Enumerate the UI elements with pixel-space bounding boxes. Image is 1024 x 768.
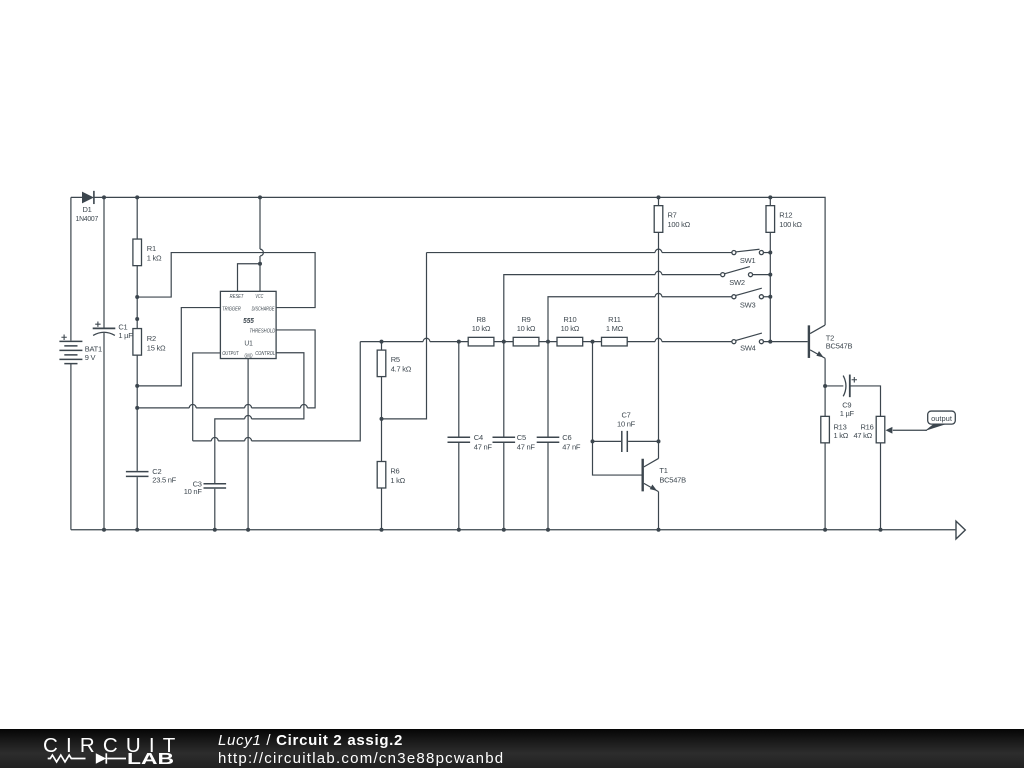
- resistor R10: [557, 315, 583, 346]
- wire C9 left: [825, 385, 843, 387]
- node SW1 right: [768, 251, 772, 255]
- svg-text:C4: C4: [474, 433, 483, 442]
- footer url: [218, 750, 504, 768]
- wire R2 bottom to TRIGGER: [137, 308, 220, 386]
- capacitor C4: [448, 433, 493, 452]
- node T2 emitter C9: [823, 384, 827, 388]
- svg-text:1 kΩ: 1 kΩ: [147, 253, 162, 262]
- transistor T1: [643, 458, 686, 491]
- svg-text:10 kΩ: 10 kΩ: [561, 324, 580, 333]
- svg-text:C5: C5: [517, 433, 526, 442]
- hop C2 wire over output drop: [189, 404, 196, 407]
- node RESET/VCC: [258, 262, 262, 266]
- resistor R11: [602, 315, 628, 346]
- svg-text:GND: GND: [245, 354, 253, 360]
- wire bottom rail: [71, 529, 956, 531]
- svg-text:output: output: [931, 414, 953, 423]
- svg-text:9 V: 9 V: [85, 353, 96, 362]
- diode D1: [76, 191, 99, 223]
- wire T2 emitter column: [824, 358, 826, 386]
- wire R12 line: [769, 197, 771, 341]
- svg-text:SW2: SW2: [729, 278, 745, 287]
- hop output wire over C3 line: [211, 437, 218, 440]
- node R2 bottom trigger: [135, 384, 139, 388]
- svg-text:1 µF: 1 µF: [118, 331, 133, 340]
- svg-text:BC547B: BC547B: [826, 342, 853, 351]
- svg-text:4.7 kΩ: 4.7 kΩ: [391, 364, 412, 373]
- resistor R13: [821, 416, 849, 443]
- node rail C5: [502, 528, 506, 532]
- node C5 top: [502, 340, 506, 344]
- svg-text:1 kΩ: 1 kΩ: [390, 476, 405, 485]
- wire CONTROL to C3: [215, 353, 304, 530]
- svg-text:555: 555: [243, 316, 255, 325]
- transistor T2: [809, 325, 853, 358]
- resistor R6: [377, 462, 405, 489]
- wire OUTPUT to row riser: [193, 342, 361, 441]
- wire SW1 branch riser to R5 bottom: [382, 253, 732, 419]
- node SW4 right: [768, 340, 772, 344]
- wire R1-R2-C2 column: [136, 197, 138, 529]
- node C4 top: [457, 340, 461, 344]
- node rail C1: [102, 528, 106, 532]
- wire C4 column: [458, 342, 460, 530]
- svg-text:C6: C6: [562, 433, 571, 442]
- svg-text:RESET: RESET: [230, 294, 244, 300]
- svg-text:C9: C9: [842, 400, 851, 409]
- wire C2 top to THRESHOLD: [137, 330, 315, 408]
- svg-text:10 kΩ: 10 kΩ: [472, 324, 491, 333]
- svg-text:100 kΩ: 100 kΩ: [779, 220, 802, 229]
- svg-text:R7: R7: [668, 211, 677, 220]
- svg-text:R2: R2: [147, 334, 156, 343]
- footer title: [218, 732, 403, 750]
- svg-text:23.5 nF: 23.5 nF: [152, 476, 176, 485]
- hop row over sw1 riser: [423, 338, 430, 341]
- hop C2 wire over gnd line: [245, 404, 252, 407]
- resistor R2: [133, 329, 166, 356]
- wire SW3 branch from C6 node: [548, 297, 732, 342]
- svg-text:CONTROL: CONTROL: [255, 351, 275, 357]
- wire C1 column: [103, 197, 105, 529]
- node R5 top: [380, 340, 384, 344]
- svg-text:1 kΩ: 1 kΩ: [834, 431, 849, 440]
- wire SW2 right to R12 line: [753, 274, 771, 276]
- svg-text:10 nF: 10 nF: [184, 487, 203, 496]
- node R2 top: [135, 317, 139, 321]
- wire C9 right to R16: [850, 386, 881, 416]
- hop sw3 wire over R7 line: [655, 293, 662, 296]
- svg-text:R16: R16: [861, 422, 874, 431]
- wire battery left column: [70, 197, 72, 529]
- hop sw1 wire over R7 line: [655, 249, 662, 252]
- node C1 top: [102, 195, 106, 199]
- svg-text:1 MΩ: 1 MΩ: [606, 324, 624, 333]
- node SW2 right: [768, 273, 772, 277]
- svg-text:47 nF: 47 nF: [562, 443, 581, 452]
- switch SW4: [732, 333, 764, 353]
- svg-text:47 nF: 47 nF: [517, 443, 536, 452]
- capacitor C2: [126, 467, 177, 485]
- wire RESET to VCC riser: [238, 264, 261, 292]
- switch SW3: [732, 288, 764, 309]
- node R1 bottom: [135, 295, 139, 299]
- wire C6 column: [547, 342, 549, 530]
- svg-text:VCC: VCC: [255, 294, 264, 300]
- wire resistor chain row: [360, 341, 731, 343]
- node C6 top: [546, 340, 550, 344]
- capacitor C9: [840, 375, 857, 419]
- svg-text:TRIGGER: TRIGGER: [222, 306, 241, 312]
- svg-text:SW3: SW3: [740, 300, 756, 309]
- wire R16 bottom: [880, 443, 882, 530]
- svg-text:47 nF: 47 nF: [474, 443, 493, 452]
- wire C5 column: [503, 342, 505, 530]
- hop sw2 wire over R7 line: [655, 271, 662, 274]
- wire R7 line: [658, 197, 660, 458]
- svg-text:R11: R11: [608, 315, 621, 324]
- node R5 bottom: [380, 417, 384, 421]
- svg-text:D1: D1: [82, 205, 91, 214]
- wire VCC riser: [259, 197, 261, 291]
- svg-text:10 kΩ: 10 kΩ: [517, 324, 536, 333]
- svg-text:R8: R8: [476, 315, 485, 324]
- switch SW1: [732, 249, 764, 265]
- node R12 top: [768, 195, 772, 199]
- node output flag: [886, 411, 956, 434]
- node R1 top: [135, 195, 139, 199]
- resistor R16: [854, 416, 885, 443]
- svg-text:47 kΩ: 47 kΩ: [854, 431, 873, 440]
- svg-text:15 kΩ: 15 kΩ: [147, 343, 166, 352]
- wire SW4 right to T2 base: [764, 341, 808, 343]
- hop row over R7 line: [655, 338, 662, 341]
- hop control wire over gnd line: [245, 415, 252, 418]
- svg-text:R12: R12: [779, 211, 792, 220]
- wire SW1 right to R12 line: [764, 252, 771, 254]
- svg-text:1 µF: 1 µF: [840, 409, 855, 418]
- node rail R6: [380, 528, 384, 532]
- svg-text:1N4007: 1N4007: [76, 214, 99, 223]
- capacitor C6: [537, 433, 581, 452]
- node VCC rail: [258, 195, 262, 199]
- wire T1 emitter to rail: [658, 492, 660, 530]
- wire top rail: [71, 197, 825, 325]
- capacitor C1: [93, 321, 134, 340]
- node C7 right: [657, 439, 661, 443]
- resistor R12: [766, 206, 802, 233]
- svg-text:C7: C7: [621, 411, 630, 420]
- node R7 top: [657, 195, 661, 199]
- svg-text:100 kΩ: 100 kΩ: [668, 220, 691, 229]
- node rail C4: [457, 528, 461, 532]
- wire C7 drop and T1 base: [593, 342, 642, 475]
- svg-text:R10: R10: [563, 315, 576, 324]
- svg-text:SW1: SW1: [740, 256, 756, 265]
- svg-text:OUTPUT: OUTPUT: [222, 351, 239, 357]
- svg-text:DISCHARGE: DISCHARGE: [252, 306, 275, 312]
- op-amp U1 555 timer box: [220, 291, 276, 359]
- resistor R8: [468, 315, 494, 346]
- switch SW2: [721, 267, 753, 288]
- svg-text:R13: R13: [834, 422, 847, 431]
- wire C7 right to R7 line: [628, 440, 658, 442]
- svg-text:LAB: LAB: [127, 751, 174, 768]
- node rail R16: [879, 528, 883, 532]
- svg-text:R1: R1: [147, 244, 156, 253]
- node C7 top: [591, 340, 595, 344]
- node rail C2: [135, 528, 139, 532]
- svg-text:BC547B: BC547B: [659, 475, 686, 484]
- battery BAT1: [59, 335, 102, 364]
- wire R13 stub: [824, 386, 826, 530]
- node rail C3: [213, 528, 217, 532]
- svg-text:U1: U1: [244, 339, 253, 348]
- wire GND column: [247, 359, 249, 530]
- capacitor C3: [184, 480, 226, 497]
- svg-text:R6: R6: [390, 466, 399, 475]
- node C2 top: [135, 406, 139, 410]
- resistor R5: [377, 350, 412, 377]
- wire SW3 right to R12 line: [764, 296, 771, 298]
- capacitor C5: [493, 433, 536, 452]
- resistor R1: [133, 239, 162, 266]
- svg-text:R9: R9: [521, 315, 530, 324]
- wire R6 bottom: [381, 488, 383, 530]
- svg-text:T1: T1: [659, 466, 667, 475]
- node SW3 right: [768, 295, 772, 299]
- wire SW2 branch from C5 node: [504, 275, 721, 342]
- CircuitLab logo: [0, 729, 200, 768]
- node rail end arrow: [956, 521, 965, 539]
- capacitor C7: [617, 411, 636, 452]
- hop VCC riser over discharge wire: [260, 249, 263, 256]
- wire R1/R2 junction to DISCHARGE: [137, 253, 315, 308]
- svg-text:10 nF: 10 nF: [617, 420, 636, 429]
- node rail R13: [823, 528, 827, 532]
- wire R5 bottom / R6 top: [381, 377, 383, 462]
- hop C2 wire over control line: [301, 404, 308, 407]
- resistor R9: [513, 315, 539, 346]
- svg-text:R5: R5: [391, 355, 400, 364]
- node rail T1: [657, 528, 661, 532]
- hop output wire over gnd line: [245, 437, 252, 440]
- node rail GND: [246, 528, 250, 532]
- svg-text:SW4: SW4: [740, 344, 756, 353]
- resistor R7: [654, 206, 690, 233]
- node rail C6: [546, 528, 550, 532]
- node C7 left: [591, 439, 595, 443]
- svg-text:THRESHOLD: THRESHOLD: [250, 329, 276, 335]
- wire R5 top stub: [381, 342, 383, 350]
